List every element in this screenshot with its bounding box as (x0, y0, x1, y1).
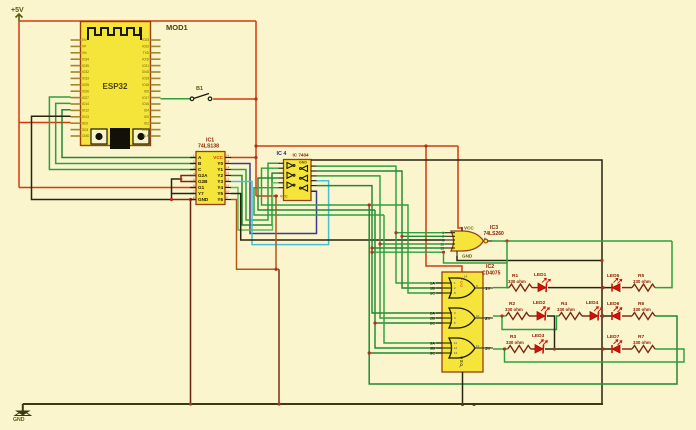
wire IC4 out L6 run (254, 188, 384, 215)
svg-text:Y5: Y5 (217, 191, 223, 196)
svg-text:LED3: LED3 (532, 333, 545, 339)
svg-text:Y7: Y7 (198, 191, 204, 196)
wire down to ground rail x=279 (278, 269, 280, 404)
wire IC4 out R1 to IC2 1A (317, 166, 443, 283)
wire IC4 out R3 to IC2 2B (317, 176, 443, 318)
wire IC1 Y6 (orange) (231, 200, 279, 270)
svg-text:IO13: IO13 (82, 115, 89, 119)
wire down to IC2 3B (375, 210, 442, 348)
svg-text:G2A: G2A (198, 173, 208, 178)
junction row1/ground vertical (601, 286, 604, 289)
svg-text:14: 14 (464, 275, 468, 279)
svg-text:IO23: IO23 (142, 38, 149, 42)
junction orange/VCC (274, 194, 277, 197)
junction on +5V vertical (254, 144, 257, 147)
svg-text:VCC: VCC (213, 155, 223, 160)
svg-text:CLK: CLK (143, 134, 150, 138)
wire +5V to IC4 VCC (256, 195, 278, 197)
LED LED3 (535, 345, 543, 354)
wire NOR output down to R1 (507, 241, 509, 288)
svg-text:G1: G1 (198, 185, 205, 190)
wire IC4 out L2 to IC2 1C (262, 168, 443, 293)
svg-text:13: 13 (440, 246, 444, 250)
resistor R1 (509, 284, 532, 291)
+5V power symbol (11, 7, 24, 21)
svg-text:IO21: IO21 (142, 64, 149, 68)
svg-text:IO16: IO16 (142, 102, 149, 106)
wire LED5-R5 (622, 287, 632, 289)
svg-text:10: 10 (476, 314, 480, 318)
svg-text:SD3: SD3 (82, 128, 88, 132)
svg-text:3C: 3C (430, 351, 435, 356)
junction x380/IC3 in4 (378, 242, 381, 245)
svg-text:LED6: LED6 (607, 301, 620, 307)
svg-text:MOD1: MOD1 (166, 23, 188, 32)
LED LED6 (612, 312, 620, 320)
svg-text:IO19: IO19 (142, 77, 149, 81)
wire +5V left rail (18, 21, 20, 188)
wire G2A-G2B tie (181, 176, 196, 182)
junction IC3 GND/ground (600, 259, 603, 262)
svg-text:330 ohm: 330 ohm (633, 307, 651, 312)
svg-text:13: 13 (226, 172, 230, 176)
svg-text:G2B: G2B (198, 179, 208, 184)
wire 2Y to R2 (493, 315, 506, 317)
svg-text:74LS138: 74LS138 (198, 144, 219, 150)
wire +5V to ESP32 pin (19, 122, 71, 124)
wire LED3 to ground node (545, 348, 612, 350)
svg-text:+5V: +5V (11, 7, 24, 14)
junction IC2 GND/rail (461, 403, 464, 406)
svg-text:IO2: IO2 (144, 121, 149, 125)
svg-text:3Y: 3Y (485, 346, 491, 351)
wire LED1 to ground node (548, 287, 612, 289)
wire IC4 out R5 to IC2 2A (317, 186, 443, 313)
wire R4-LED4 (582, 315, 590, 317)
svg-text:B1: B1 (196, 86, 203, 92)
junction x372/IC3 in5 (370, 246, 373, 249)
svg-text:330 ohm: 330 ohm (557, 307, 575, 312)
svg-text:CD4075: CD4075 (482, 271, 501, 277)
svg-text:12: 12 (226, 178, 230, 182)
wire to IC3 input 5 (372, 247, 445, 249)
svg-text:CMD: CMD (82, 134, 90, 138)
wire LED6-R6 (622, 315, 632, 317)
hex inverter IC4 7404 body (279, 160, 317, 201)
OR gate 1 of IC2 (430, 278, 493, 298)
wire LED2 cathode down to row3 (547, 316, 555, 349)
svg-text:GND: GND (142, 70, 150, 74)
svg-text:RXD: RXD (142, 57, 149, 61)
junction row3/ground vertical (601, 347, 604, 350)
wire orange up to VCC row (275, 196, 277, 269)
wire R2-LED2 (529, 315, 537, 317)
LED LED5 (612, 284, 620, 292)
wire IC4 out L4 run (258, 178, 375, 210)
wire to IC3 input 2 (402, 235, 445, 237)
resistor R3 (508, 346, 531, 353)
wire IC1 Y2 to IC4 (231, 173, 279, 225)
NOR gate IC3 74LS260 (440, 226, 492, 259)
wire IC3 GND to ground vertical (457, 256, 602, 261)
wire ESP32 to IC1 B (56, 103, 196, 163)
svg-text:Y6: Y6 (217, 197, 223, 202)
svg-text:2C: 2C (430, 321, 435, 326)
svg-text:EN: EN (82, 38, 87, 42)
svg-text:330 ohm: 330 ohm (506, 340, 524, 345)
wire R1-LED1 (532, 287, 538, 289)
svg-text:TXD: TXD (143, 51, 150, 55)
svg-text:1C: 1C (430, 291, 435, 296)
wire ESP32 to IC1 C (49, 97, 196, 170)
svg-text:330 ohm: 330 ohm (633, 279, 651, 284)
svg-text:10: 10 (226, 190, 230, 194)
wire IC1 Y1 to IC4 (231, 163, 279, 220)
svg-text:Y2: Y2 (217, 173, 223, 178)
wire IC3 output (492, 240, 507, 242)
svg-text:Y0: Y0 (217, 161, 223, 166)
junction IC1 GND (189, 198, 192, 201)
LED LED4 (590, 312, 598, 321)
wire 1Y to R1 (493, 287, 509, 289)
wire R3-LED3 (531, 348, 535, 350)
svg-text:ESP32: ESP32 (103, 82, 128, 91)
OR gate 3 of IC2 (430, 338, 493, 358)
wire IC1 Y3 (cyan) (231, 181, 329, 245)
svg-text:IO34: IO34 (82, 57, 89, 61)
svg-text:11: 11 (454, 341, 457, 345)
wire +5V branch y=146 (256, 145, 458, 147)
svg-text:1Y: 1Y (485, 286, 491, 291)
svg-text:LED5: LED5 (607, 273, 620, 279)
svg-text:IO18: IO18 (142, 83, 149, 87)
wire 3Y to R3 (493, 348, 508, 350)
junction x402/IC3 in2 (400, 235, 403, 238)
junction +5V branch (424, 144, 427, 147)
wire +5V to IC3 VCC (458, 146, 462, 231)
wire ESP32 GND to IC1 enables (32, 116, 182, 199)
wire 3Y branch to R7 (505, 349, 685, 362)
wire branch to IC2 3C (369, 352, 442, 354)
wire LED4 to ground node (600, 315, 612, 317)
junction ground rail x190 (189, 402, 192, 405)
svg-text:IC2: IC2 (486, 264, 494, 270)
wire IC4 out R2 to IC2 1B (317, 171, 443, 288)
wire NOR output down to R5 (655, 241, 672, 288)
svg-text:330 ohm: 330 ohm (633, 340, 651, 345)
LED LED1 (538, 283, 546, 292)
svg-text:13: 13 (454, 351, 458, 355)
wire to IC3 input 1 (396, 232, 445, 234)
wire +5V vertical x=256 (255, 21, 257, 196)
junction +5V/IC1 VCC (254, 156, 257, 159)
svg-text:IO15: IO15 (142, 128, 149, 132)
svg-text:IO32: IO32 (82, 70, 89, 74)
decoder IC1 74LS138 body (190, 152, 231, 205)
svg-text:LED4: LED4 (586, 300, 599, 306)
svg-text:IO12: IO12 (82, 109, 89, 113)
LED LED7 (612, 345, 620, 353)
junction on ground rail (472, 403, 475, 406)
svg-text:GND: GND (462, 254, 473, 259)
svg-text:330 ohm: 330 ohm (508, 279, 526, 284)
wire +5V to IC1 G1 (19, 187, 196, 189)
wire down to IC2 3A (384, 215, 442, 343)
svg-text:IC 7404: IC 7404 (293, 153, 310, 158)
junction x443/y252 (442, 251, 445, 254)
wire to IC1 Y7 (172, 193, 197, 195)
svg-text:Y3: Y3 (217, 179, 223, 184)
svg-text:Y1: Y1 (217, 167, 223, 172)
wire branch to IC2 2C (375, 322, 442, 324)
svg-text:GND: GND (299, 161, 307, 165)
ESP32 left pins (71, 38, 90, 138)
svg-text:GND: GND (198, 197, 209, 202)
svg-text:IO0: IO0 (144, 115, 149, 119)
wire +5V to IC2 VCC pin 14 (426, 146, 462, 272)
svg-text:12: 12 (454, 346, 458, 350)
wire branch y=252 (372, 251, 444, 253)
junction x375/2C (373, 321, 376, 324)
wire IC1 Y4 to IC4 (231, 183, 279, 230)
svg-text:Y4: Y4 (217, 185, 223, 190)
ESP32 module MOD1 (81, 22, 151, 150)
triple OR IC2 CD4075 body (442, 272, 483, 372)
wire to NOR output riser (444, 252, 508, 263)
svg-text:11: 11 (476, 344, 479, 348)
svg-text:SD2: SD2 (82, 121, 88, 125)
svg-text:IO22: IO22 (142, 45, 149, 49)
svg-text:LED7: LED7 (607, 334, 620, 340)
wire ground rail (23, 403, 603, 405)
wire NOR output to right (507, 240, 672, 242)
svg-text:IO14: IO14 (82, 102, 89, 106)
svg-text:IO17: IO17 (142, 96, 149, 100)
wire +5V top rail (19, 20, 256, 22)
junction ESP32 GND corner (170, 198, 173, 201)
junction LED2 cathode (553, 347, 556, 350)
wire ESP32 to IC1 A (62, 110, 196, 158)
junction G2A tie (180, 178, 183, 181)
wire B1 to +5V vertical (213, 98, 256, 100)
resistor R5 (632, 284, 655, 291)
OR gate 2 of IC2 (430, 308, 493, 328)
junction x369/3C (368, 351, 371, 354)
junction y205 (368, 203, 371, 206)
wire IC2 GND to ground rail (462, 372, 464, 405)
svg-text:11: 11 (226, 184, 229, 188)
wire IC4 GND to ground rail (311, 160, 602, 405)
junction 3Y branch (503, 347, 506, 350)
svg-text:IO5: IO5 (144, 89, 149, 93)
wire IC1 GND down to ground rail (190, 200, 192, 405)
svg-text:2Y: 2Y (485, 316, 491, 321)
svg-text:IO26: IO26 (82, 89, 89, 93)
resistor R7 (632, 346, 655, 353)
svg-text:VP: VP (82, 45, 86, 49)
svg-text:14: 14 (226, 166, 230, 170)
resistor R2 (506, 313, 529, 320)
svg-text:15: 15 (226, 160, 230, 164)
ground symbol (13, 404, 31, 423)
junction x396/IC3 in1 (394, 231, 397, 234)
svg-text:IO27: IO27 (82, 96, 89, 100)
wire IC1 VCC (230, 157, 256, 159)
svg-text:VCC: VCC (464, 226, 474, 231)
wire long loop to R6 (369, 205, 677, 384)
junction row2/ground vertical (601, 314, 604, 317)
svg-text:VCC: VCC (280, 195, 288, 199)
switch B1 (161, 86, 212, 101)
junction x372/y252 (370, 251, 373, 254)
svg-text:LED1: LED1 (534, 272, 547, 278)
wire IC1 Y5 to IC3 input (231, 194, 445, 241)
LED LED2 (537, 312, 545, 321)
svg-text:LED2: LED2 (533, 300, 546, 306)
svg-text:IC 4: IC 4 (277, 151, 287, 157)
junction NOR output (505, 239, 508, 242)
svg-text:IO25: IO25 (82, 83, 89, 87)
svg-text:VN: VN (82, 51, 87, 55)
svg-text:74LS260: 74LS260 (484, 231, 505, 237)
junction B1/+5V (254, 97, 257, 100)
svg-text:GND: GND (13, 417, 25, 423)
resistor R6 (632, 313, 655, 320)
wire IC1 Y0 (navy) (231, 164, 317, 234)
svg-text:IO33: IO33 (82, 77, 89, 81)
svg-text:IO35: IO35 (82, 64, 89, 68)
resistor R4 (559, 313, 582, 320)
wire to IC3 input 4 (380, 243, 445, 245)
wire 2Y branch to R4 (502, 316, 559, 330)
wire to IC1 GND (172, 199, 197, 201)
wire LED7-R7 (622, 348, 632, 350)
junction ground rail x279 (277, 402, 280, 405)
svg-text:IO4: IO4 (144, 109, 149, 113)
svg-text:330 ohm: 330 ohm (505, 307, 523, 312)
ESP32 right pins (142, 38, 161, 138)
junction 2Y branch (500, 314, 503, 317)
junction orange wire (274, 268, 277, 271)
svg-text:16: 16 (226, 154, 230, 158)
